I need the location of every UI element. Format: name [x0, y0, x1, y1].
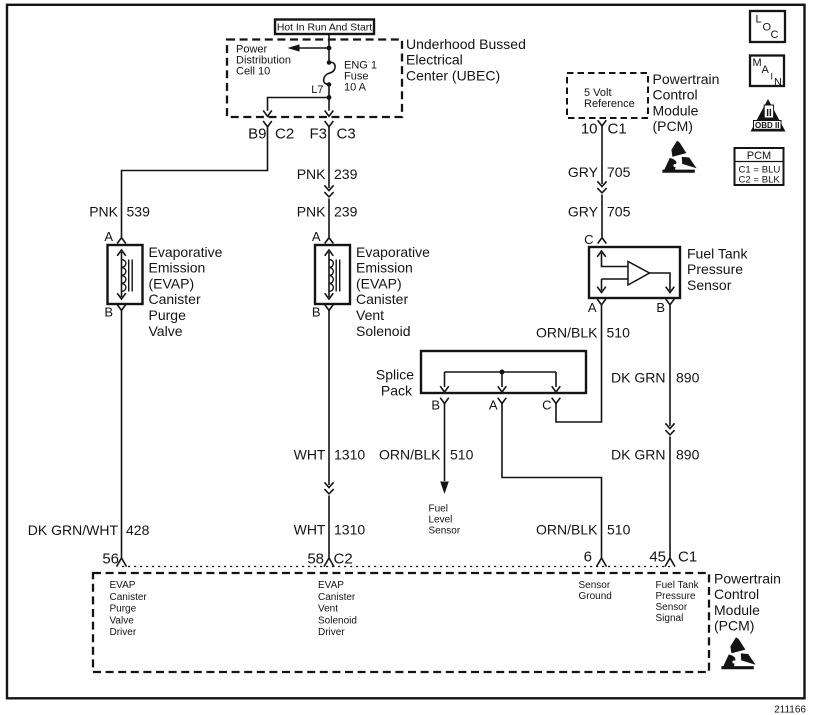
solenoid EVAP Canister Vent Solenoid [315, 245, 350, 304]
svg-text:GRY: GRY [568, 204, 599, 220]
connector at PCM pin 6 [597, 558, 607, 567]
svg-text:(EVAP): (EVAP) [149, 275, 195, 291]
svg-text:Vent: Vent [318, 604, 338, 615]
svg-text:Valve: Valve [110, 615, 135, 626]
svg-text:Vent: Vent [356, 307, 384, 323]
svg-text:Solenoid: Solenoid [318, 615, 357, 626]
svg-text:I: I [771, 72, 774, 82]
5 Volt Reference dashed box [567, 73, 648, 118]
UBEC dashed box [227, 40, 402, 118]
svg-text:Underhood Bussed: Underhood Bussed [406, 36, 526, 52]
splice pack box [421, 351, 586, 393]
svg-text:Powertrain: Powertrain [714, 571, 781, 587]
svg-text:Purge: Purge [149, 307, 187, 323]
svg-text:C1: C1 [678, 549, 697, 566]
in-line connector on PNK 239 [324, 185, 333, 197]
label ORN/BLK 510 [536, 325, 630, 341]
Fuel Tank Pressure Sensor [589, 247, 680, 298]
svg-text:(PCM): (PCM) [714, 618, 754, 634]
node: feed junction dot [327, 46, 332, 51]
svg-text:Control: Control [714, 586, 759, 602]
svg-text:Canister: Canister [149, 291, 201, 307]
svg-text:Sensor: Sensor [656, 602, 688, 613]
svg-text:PCM: PCM [747, 150, 771, 162]
label WHT 1310 upper [294, 447, 366, 463]
svg-text:Emission: Emission [149, 260, 206, 276]
svg-text:GRY: GRY [568, 164, 599, 180]
splice drop to A [501, 372, 503, 387]
arrow to Fuel Level Sensor [440, 482, 449, 495]
OBD II symbol [751, 99, 786, 132]
svg-text:705: 705 [607, 204, 631, 220]
label PNK 239 lower [297, 204, 358, 220]
svg-text:C2: C2 [275, 126, 294, 143]
svg-text:705: 705 [607, 164, 631, 180]
svg-text:II: II [766, 108, 772, 119]
label ENG 1 Fuse 10 A [344, 60, 377, 94]
svg-text:Pressure: Pressure [656, 591, 696, 602]
svg-text:56: 56 [102, 551, 119, 568]
LOC legend box [750, 11, 785, 42]
svg-text:ORN/BLK: ORN/BLK [536, 522, 598, 538]
in-line connector on GRY 705 [597, 181, 606, 193]
svg-text:PNK: PNK [89, 204, 118, 220]
svg-text:Canister: Canister [356, 291, 408, 307]
svg-text:Evaporative: Evaporative [149, 244, 223, 260]
label PNK 239 upper [297, 166, 358, 182]
svg-text:PNK: PNK [297, 166, 326, 182]
svg-text:Sensor: Sensor [429, 526, 461, 537]
svg-text:Module: Module [714, 602, 760, 618]
splice drop to C [555, 372, 557, 387]
connector at FTP sensor pin A [597, 299, 606, 305]
connector F3 C3 [309, 121, 355, 143]
svg-text:Sensor: Sensor [579, 580, 611, 591]
svg-text:211166: 211166 [774, 705, 806, 715]
svg-text:510: 510 [607, 522, 631, 538]
svg-text:510: 510 [607, 325, 631, 341]
svg-text:890: 890 [676, 370, 700, 386]
svg-text:Solenoid: Solenoid [356, 323, 411, 339]
wire splice A to PCM pin 6 (ORN/BLK 510) [502, 404, 602, 558]
splice drop to B [444, 372, 446, 387]
svg-text:Reference: Reference [584, 98, 635, 110]
svg-text:Cell 10: Cell 10 [236, 66, 270, 78]
svg-text:Module: Module [653, 102, 699, 118]
label ORN/BLK 510 [536, 522, 631, 538]
svg-text:Driver: Driver [318, 627, 345, 638]
connector at PCM pin 56 [117, 558, 127, 567]
splice bus bar [445, 371, 557, 373]
UBEC label [406, 36, 526, 83]
svg-text:Sensor: Sensor [687, 277, 732, 293]
label Powertrain Control Module (PCM) top [653, 71, 720, 134]
svg-text:C2 = BLK: C2 = BLK [739, 175, 781, 186]
svg-text:Canister: Canister [318, 592, 356, 603]
svg-text:239: 239 [334, 166, 358, 182]
wire branch to B9 [268, 98, 330, 111]
svg-text:Powertrain: Powertrain [653, 71, 720, 87]
svg-text:539: 539 [127, 204, 151, 220]
label GRY 705 lower [568, 204, 631, 220]
arrowhead at B9 exit [263, 111, 272, 117]
Power Distribution Cell 10 label [236, 44, 291, 78]
svg-text:A: A [588, 300, 597, 315]
svg-text:10 A: 10 A [344, 82, 367, 94]
arrow to Power Distribution (left) [288, 44, 300, 51]
svg-text:Evaporative: Evaporative [356, 244, 430, 260]
svg-text:45: 45 [649, 549, 666, 566]
label Fuel Tank Pressure Sensor Signal [656, 580, 700, 624]
in-line connector on DK GRN 890 [665, 423, 674, 435]
svg-text:Splice: Splice [376, 367, 414, 383]
svg-text:510: 510 [450, 447, 474, 463]
svg-text:DK GRN/WHT: DK GRN/WHT [28, 522, 119, 538]
svg-text:L: L [756, 14, 762, 26]
PCM connector color legend box [735, 148, 784, 186]
svg-text:Center (UBEC): Center (UBEC) [406, 67, 500, 83]
svg-text:Fuel Tank: Fuel Tank [687, 245, 748, 261]
svg-text:A: A [312, 229, 321, 244]
MAIN legend box [750, 56, 784, 89]
wire purge valve B to PCM pin 56 (DK GRN/WHT 428) [121, 310, 123, 557]
svg-text:WHT: WHT [294, 447, 326, 463]
connector at purge valve pin B [117, 305, 126, 311]
svg-text:A: A [762, 64, 770, 76]
svg-text:58: 58 [307, 551, 324, 568]
ESD symbol top PCM [662, 141, 696, 173]
connector at PCM pin 58 C2 [324, 558, 334, 567]
svg-text:B: B [312, 305, 321, 320]
svg-text:DK GRN: DK GRN [611, 370, 665, 386]
wire from Hot feed into UBEC [328, 34, 330, 48]
wire 5V ref to FTP sensor pin C (GRY 705) [601, 126, 603, 237]
svg-text:239: 239 [334, 204, 358, 220]
solenoid EVAP Canister Purge Valve [108, 245, 143, 304]
svg-text:Emission: Emission [356, 260, 413, 276]
wire to Power Distribution arrow [298, 47, 329, 49]
svg-text:B9: B9 [248, 126, 266, 143]
connector B9 C2 [248, 121, 294, 143]
svg-text:M: M [753, 57, 762, 69]
svg-text:Fuel: Fuel [429, 504, 448, 515]
svg-text:10: 10 [581, 121, 598, 138]
svg-text:Ground: Ground [579, 591, 612, 602]
connector at FTP sensor pin C [598, 238, 607, 244]
svg-text:L7: L7 [311, 84, 323, 96]
svg-text:890: 890 [676, 447, 700, 463]
svg-text:Level: Level [429, 515, 453, 526]
Hot In Run And Start feed box [275, 20, 374, 35]
svg-text:Valve: Valve [149, 323, 183, 339]
svg-text:B: B [104, 305, 113, 320]
label DK GRN/WHT 428 [28, 522, 150, 538]
label PNK 539 [89, 204, 150, 220]
wire vent solenoid B to PCM pin 58 (WHT 1310) [328, 310, 330, 557]
node: fuse output junction dot [327, 95, 332, 100]
label Splice Pack [376, 367, 414, 399]
label DK GRN 890 lower [611, 447, 700, 463]
svg-text:WHT: WHT [294, 522, 326, 538]
PCM connector face dotted line [122, 566, 670, 568]
label Evaporative Emission (EVAP) Canister Vent Solenoid [356, 244, 430, 339]
svg-text:Fuel Tank: Fuel Tank [656, 580, 700, 591]
label Fuel Tank Pressure Sensor [687, 245, 748, 293]
svg-text:1310: 1310 [334, 447, 365, 463]
svg-text:N: N [774, 77, 782, 89]
connector at splice pin B [431, 398, 448, 413]
svg-text:Hot In Run And Start: Hot In Run And Start [277, 23, 372, 34]
label Sensor Ground [579, 580, 612, 602]
svg-text:A: A [489, 398, 498, 413]
svg-text:Pack: Pack [381, 383, 413, 399]
svg-text:DK GRN: DK GRN [611, 447, 665, 463]
svg-text:A: A [104, 229, 113, 244]
svg-text:6: 6 [584, 549, 592, 566]
svg-text:428: 428 [126, 522, 150, 538]
svg-text:Control: Control [653, 87, 698, 103]
svg-text:B: B [431, 398, 440, 413]
svg-text:Pressure: Pressure [687, 261, 743, 277]
wire FTP sensor A to splice pack C (ORN/BLK 510) [556, 305, 602, 422]
connector at PCM pin 10 C1 [581, 120, 627, 137]
svg-text:OBD II: OBD II [755, 121, 779, 130]
svg-text:C2: C2 [334, 551, 353, 568]
label EVAP Canister Purge Valve Driver [110, 580, 148, 638]
svg-text:C: C [771, 29, 779, 41]
connector at vent solenoid pin A [325, 238, 334, 244]
svg-text:Canister: Canister [110, 592, 148, 603]
svg-text:B: B [656, 300, 665, 315]
ESD symbol bottom PCM [721, 637, 755, 669]
label DK GRN 890 upper [611, 370, 700, 386]
label Fuel Level Sensor [429, 504, 461, 537]
label Powertrain Control Module (PCM) bottom [714, 571, 781, 634]
label ORN/BLK 510 [379, 447, 474, 463]
svg-text:C: C [584, 232, 593, 247]
svg-text:EVAP: EVAP [110, 580, 136, 591]
connector at vent solenoid pin B [325, 305, 334, 311]
wire F3 to vent solenoid pin A (PNK 239) [328, 127, 330, 237]
svg-text:ORN/BLK: ORN/BLK [536, 325, 598, 341]
svg-text:Driver: Driver [110, 627, 137, 638]
label GRY 705 upper [568, 164, 631, 180]
svg-text:Purge: Purge [110, 604, 137, 615]
node: splice bus dot [500, 370, 505, 375]
in-line connector on WHT 1310 [324, 482, 333, 494]
connector at splice pin A [489, 398, 506, 413]
PCM dashed box [93, 573, 709, 672]
pin label 45 C1 [649, 549, 697, 566]
connector at PCM pin 45 C1 [665, 558, 675, 567]
wire main to F3 [328, 98, 330, 111]
wire fuse to lower junction [328, 85, 330, 98]
label EVAP Canister Vent Solenoid Driver [318, 580, 357, 638]
connector at purge valve pin A [117, 238, 126, 244]
label WHT 1310 lower [294, 522, 366, 538]
svg-text:Electrical: Electrical [406, 52, 463, 68]
svg-text:1310: 1310 [334, 522, 365, 538]
fuse ENG 1 10 A [324, 60, 336, 87]
svg-text:F3: F3 [309, 126, 327, 143]
svg-text:C1: C1 [608, 121, 627, 138]
arrowhead at F3 exit [325, 111, 334, 117]
wire B9 to EVAP purge valve pin A (PNK 539) [122, 127, 268, 237]
wire splice B to fuel level sensor (ORN/BLK 510) [444, 404, 446, 482]
svg-text:(PCM): (PCM) [653, 118, 693, 134]
svg-text:ORN/BLK: ORN/BLK [379, 447, 441, 463]
label Evaporative Emission (EVAP) Canister Purge Valve [149, 244, 223, 339]
pin label 58 C2 [307, 551, 352, 568]
wire FTP sensor B to PCM pin 45 (DK GRN 890) [669, 305, 671, 558]
svg-text:EVAP: EVAP [318, 580, 344, 591]
connector at splice pin C [542, 398, 560, 413]
svg-text:Signal: Signal [656, 613, 684, 624]
wire junction to fuse [328, 48, 330, 62]
svg-text:PNK: PNK [297, 204, 326, 220]
svg-text:(EVAP): (EVAP) [356, 275, 402, 291]
connector at FTP sensor pin B [666, 299, 675, 305]
svg-text:C3: C3 [337, 126, 356, 143]
svg-text:C: C [542, 398, 551, 413]
